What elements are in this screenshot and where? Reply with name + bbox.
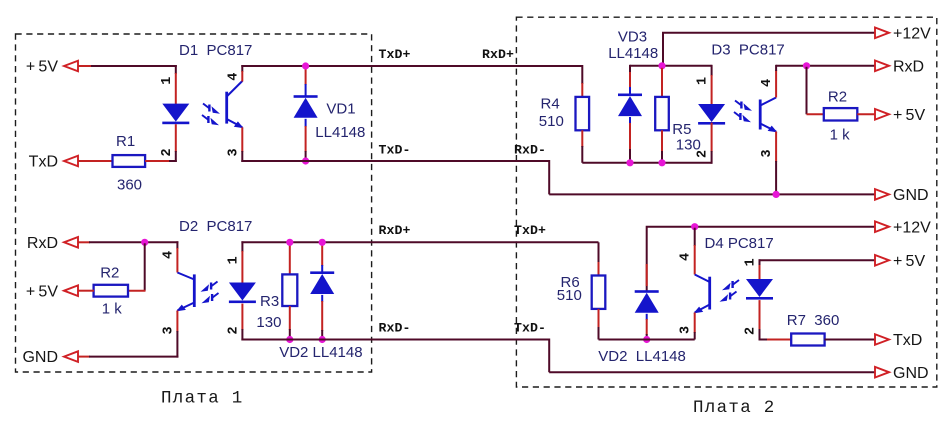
optocoupler D2 label — [179, 218, 252, 235]
wire net TxD- (board1 pin3 to corner) — [241, 161, 549, 194]
LED of D4 — [746, 279, 773, 300]
resistor R1 — [113, 155, 146, 167]
wire top bus VD3 to D3 pin1 — [630, 65, 712, 67]
emitter line with arrow of D4 — [693, 305, 709, 314]
net label TxD+ (board2 side) — [514, 223, 546, 238]
wire VD1 cathode stub — [305, 119, 307, 161]
svg-text:RxD-: RxD- — [379, 320, 411, 335]
wire net TxD+ top bus (board1 to board2 R4) — [241, 65, 582, 67]
wire R2 branch board1 — [128, 243, 145, 290]
pin number 3 of D4 — [679, 326, 694, 334]
LED of D3 — [698, 104, 725, 125]
phototransistor of D4 (base bar) — [708, 277, 711, 310]
wire D1 pin2 vertical — [175, 124, 177, 162]
label R3 — [260, 293, 279, 310]
wire D4 pin1 vertical — [759, 259, 761, 280]
svg-text:4: 4 — [226, 73, 241, 81]
wire VD3 cathode stub — [629, 117, 631, 163]
svg-text:D4 PC817: D4 PC817 — [705, 235, 774, 252]
value 510 of R4 — [539, 113, 564, 130]
svg-text:+ 5V: + 5V — [893, 107, 925, 124]
wire R3 bottom stub — [289, 306, 291, 340]
collector line of D1 — [227, 81, 243, 97]
wire RxD+ into R4 top — [549, 66, 582, 98]
node +5V label (board2 top) — [893, 107, 925, 124]
node GND label (board2 top) — [893, 187, 929, 204]
wire D1 pin3 vertical — [241, 127, 243, 162]
phototransistor of D2 (base bar) — [193, 274, 196, 307]
svg-text:RxD+: RxD+ — [379, 223, 411, 238]
connector arrow GND board2 top — [875, 189, 889, 200]
svg-text:R1: R1 — [116, 133, 135, 150]
svg-text:LL4148: LL4148 — [608, 45, 658, 62]
wire D1 pin4 vertical — [241, 65, 243, 82]
wire RxD run (pin4 to arrow) — [776, 65, 875, 67]
wire +5V to R2 board1 — [78, 290, 94, 292]
pin number 1 of D3 — [696, 77, 711, 85]
label VD2 LL4148 (board2) — [598, 348, 686, 365]
wire +12V riser and top rail — [663, 33, 876, 66]
wire GND run board2 bottom — [549, 371, 875, 373]
pin number 3 of D2 — [161, 326, 176, 334]
svg-text:1: 1 — [226, 256, 241, 264]
svg-text:+12V: +12V — [893, 25, 931, 42]
wire VD2 cathode stub (board2) — [646, 314, 648, 340]
diode VD2 (board1) — [310, 271, 334, 294]
label R1 — [116, 133, 135, 150]
node GND label (board2 bottom) — [893, 365, 929, 382]
svg-text:+ 5V: + 5V — [26, 283, 58, 300]
pin number 2 of D2 — [226, 326, 241, 334]
junction dot D3 pin3 GND — [773, 191, 780, 198]
svg-text:R5: R5 — [672, 121, 691, 138]
wire top rail board2 bottom (+12V) — [647, 227, 876, 292]
net label TxD+ (board1 side) — [379, 47, 411, 62]
svg-text:TxD+: TxD+ — [514, 223, 546, 238]
svg-text:RxD+: RxD+ — [482, 47, 514, 62]
svg-text:VD2 LL4148: VD2 LL4148 — [279, 344, 362, 361]
wire TxD+ into R6 top — [598, 242, 600, 276]
svg-text:TxD+: TxD+ — [379, 47, 411, 62]
wire R2 branch vertical — [807, 67, 825, 115]
light arrows of D1 — [202, 104, 220, 126]
wire +5V to D1 pin1 — [78, 65, 177, 67]
net label RxD- (board1 side) — [379, 320, 411, 335]
svg-text:RxD-: RxD- — [514, 142, 546, 157]
resistor R6 — [592, 276, 606, 309]
svg-text:3: 3 — [161, 326, 176, 334]
svg-text:VD3: VD3 — [618, 29, 647, 46]
net label TxD- (board1 side) — [379, 142, 411, 157]
pin number 2 of D1 — [160, 148, 175, 156]
wire R2 to +5V arrow — [857, 113, 875, 115]
emitter line with arrow of D2 — [176, 303, 194, 312]
svg-text:Плата 2: Плата 2 — [693, 398, 776, 418]
junction dot R3 top — [286, 239, 293, 246]
svg-text:TxD: TxD — [29, 154, 58, 171]
wire R5 top stub — [661, 68, 663, 98]
junction dot VD2 bottom board2 — [643, 336, 650, 343]
diode VD2 (board2) — [635, 290, 659, 313]
svg-text:R7 360: R7 360 — [787, 312, 840, 329]
node TxD label (board1) — [29, 154, 58, 171]
pin number 3 of D1 — [226, 148, 241, 156]
junction dot VD3 bottom — [626, 159, 633, 166]
svg-text:+ 5V: + 5V — [893, 253, 925, 270]
svg-text:TxD-: TxD- — [379, 142, 411, 157]
resistor R3 — [282, 274, 297, 306]
wire R7 to TxD arrow — [825, 339, 876, 341]
pin number 4 of D1 — [226, 73, 241, 81]
svg-text:2: 2 — [744, 327, 759, 335]
value LL4148 of VD3 — [608, 45, 658, 62]
connector arrow GND board2 bottom — [875, 367, 889, 378]
svg-text:1: 1 — [744, 258, 759, 266]
pin number 2 of D3 — [696, 150, 711, 158]
svg-text:2: 2 — [160, 148, 175, 156]
board 2 caption — [693, 398, 776, 418]
wire +5V run board2 bottom — [759, 259, 876, 261]
light arrows of D3 — [734, 101, 752, 123]
connector arrow +5V board2 top — [875, 109, 889, 120]
value 510 of R6 — [557, 287, 582, 304]
wire VD2 anode stub (board1) — [321, 244, 323, 272]
svg-text:VD1: VD1 — [326, 101, 355, 118]
label VD1 — [326, 101, 355, 118]
svg-text:D2 PC817: D2 PC817 — [179, 218, 252, 235]
board 1 dashed border (Plata 1) — [16, 34, 372, 372]
net label RxD- (board2 side) — [514, 142, 546, 157]
label R6 — [561, 274, 580, 291]
node RxD label (board2) — [893, 58, 924, 75]
wire VD2 anode stub (board2) — [646, 264, 648, 286]
pin number 4 of D3 — [760, 79, 775, 87]
svg-text:2: 2 — [696, 150, 711, 158]
LED of D2 — [229, 283, 256, 304]
svg-text:R2: R2 — [828, 89, 847, 106]
svg-text:1 k: 1 k — [830, 126, 851, 143]
svg-text:4: 4 — [760, 79, 775, 87]
net label RxD+ (board1 side) — [379, 223, 411, 238]
emitter line with arrow of D1 — [227, 119, 244, 128]
svg-text:3: 3 — [760, 149, 775, 157]
label R2 (board1) — [100, 265, 119, 282]
wire D3 pin4 vertical — [775, 65, 777, 98]
wire D3 pin2 vertical — [711, 123, 713, 164]
wire D4 pin2 vertical — [759, 300, 761, 340]
node TxD label (board2) — [893, 332, 922, 349]
junction dot D4 pin4 tap — [691, 223, 698, 230]
wire R5 bottom stub — [661, 130, 663, 163]
wire D2 pin1 vertical — [241, 241, 243, 283]
wire R1 to D1 pin2 — [145, 160, 177, 162]
svg-text:1: 1 — [160, 77, 175, 85]
wire D3 pin1 vertical — [711, 65, 713, 105]
label R7 360 — [787, 312, 840, 329]
wire bottom bus R6 to D4 pin3 — [599, 339, 695, 341]
connector arrow +5V board1 — [64, 61, 78, 72]
svg-text:4: 4 — [161, 251, 176, 259]
emitter line with arrow of D3 — [760, 124, 777, 133]
label R4 — [541, 96, 560, 113]
wire VD3 anode stub — [629, 65, 631, 95]
svg-text:1 k: 1 k — [102, 301, 123, 318]
label R2 (board2) — [828, 89, 847, 106]
node GND label (board1) — [22, 349, 58, 366]
connector arrow TxD board1 — [64, 156, 78, 167]
junction dot VD2 bottom board1 — [319, 336, 326, 343]
phototransistor of D1 (base bar) — [225, 92, 228, 124]
pin number 3 of D3 — [760, 149, 775, 157]
label VD3 — [618, 29, 647, 46]
pin number 1 of D1 — [160, 77, 175, 85]
svg-text:Плата 1: Плата 1 — [161, 389, 244, 409]
junction dot VD2 top board1 — [319, 239, 326, 246]
value 1 k of R2 (board2) — [830, 126, 851, 143]
label R5 — [672, 121, 691, 138]
diode VD3 — [618, 94, 642, 117]
svg-text:D3 PC817: D3 PC817 — [711, 41, 784, 58]
connector arrow +12V board2 bottom — [875, 221, 889, 232]
board 1 caption — [161, 389, 244, 409]
svg-text:3: 3 — [679, 326, 694, 334]
light arrows of D4 — [720, 280, 740, 302]
svg-text:130: 130 — [256, 314, 281, 331]
net label TxD- (board2 side) — [514, 320, 546, 335]
connector arrow RxD board2 — [875, 61, 889, 72]
wire D2 pin2 vertical — [241, 304, 243, 341]
svg-text:360: 360 — [117, 176, 142, 193]
pin number 1 of D2 — [226, 256, 241, 264]
wire D1 pin1 vertical — [175, 65, 177, 105]
svg-text:GND: GND — [893, 187, 929, 204]
svg-text:R3: R3 — [260, 293, 279, 310]
pin number 4 of D2 — [161, 251, 176, 259]
pin number 4 of D4 — [679, 253, 694, 261]
node +5V label (board2 bottom) — [893, 253, 925, 270]
wire TxD to R1 — [78, 160, 113, 162]
value 130 of R5 — [676, 137, 701, 154]
svg-text:VD2 LL4148: VD2 LL4148 — [598, 348, 686, 365]
svg-text:1: 1 — [696, 77, 711, 85]
junction dot VD1 bottom — [302, 157, 309, 164]
svg-text:R4: R4 — [541, 96, 560, 113]
wire D3 pin3 vertical — [775, 132, 777, 195]
wire bottom bus R4 to D3 pin2 — [582, 162, 711, 164]
connector arrow +12V board2 top — [875, 28, 889, 39]
wire R3 top stub — [289, 244, 291, 275]
connector arrow TxD board2 — [875, 334, 889, 345]
svg-text:RxD: RxD — [27, 235, 58, 252]
connector arrow +5V board2 bottom — [875, 255, 889, 266]
junction dot R3 bottom — [286, 336, 293, 343]
wire D2 pin4 vertical — [176, 241, 178, 272]
svg-text:LL4148: LL4148 — [315, 124, 365, 141]
connector arrow GND board1 — [64, 351, 78, 362]
light arrows of D2 — [201, 282, 219, 304]
optocoupler D3 label — [711, 41, 784, 58]
node +12V label (board2 top) — [893, 25, 931, 42]
node +12V label (board2 bottom) — [893, 219, 931, 236]
node +5V label (board1 top) — [26, 59, 58, 76]
svg-text:TxD: TxD — [893, 332, 922, 349]
collector line of D3 — [760, 98, 776, 106]
junction dot RxD R2 tap — [803, 62, 810, 69]
resistor R2 (board2) — [824, 108, 858, 120]
node RxD label (board1) — [27, 235, 58, 252]
optocoupler D1 label — [179, 42, 252, 59]
wire RxD to D2 pin4 — [78, 241, 178, 243]
connector arrow RxD board1 — [64, 237, 78, 248]
phototransistor of D3 (base bar) — [759, 100, 762, 130]
resistor R5 — [655, 97, 669, 130]
connector arrow +5V board1 bottom — [64, 285, 78, 296]
wire net RxD+ top bus (board1 to board2 R6) — [241, 241, 598, 243]
wire R6 bottom stub — [598, 309, 600, 340]
svg-text:+ 5V: + 5V — [26, 59, 58, 76]
collector line of D4 — [695, 275, 710, 283]
junction dot R5 bottom — [658, 159, 665, 166]
svg-text:GND: GND — [22, 349, 58, 366]
wire R4 bottom stub — [581, 130, 583, 163]
wire VD2 cathode stub (board1) — [321, 295, 323, 340]
wire D4 pin4 vertical — [694, 228, 696, 275]
wire D2 pin3 vertical — [176, 311, 178, 358]
wire GND board1 — [78, 356, 178, 358]
value 1 k of R2 (board1) — [102, 301, 123, 318]
svg-text:2: 2 — [226, 326, 241, 334]
optocoupler D4 label — [705, 235, 774, 252]
LED of D1 — [162, 104, 189, 125]
net label RxD+ (board2 side) — [482, 47, 514, 62]
node +5V label (board1 bottom) — [26, 283, 58, 300]
wire VD1 anode stub — [305, 68, 307, 97]
svg-text:TxD-: TxD- — [514, 320, 546, 335]
label VD2 LL4148 (board1) — [279, 344, 362, 361]
junction dot +12V tap — [658, 62, 665, 69]
wire D4 pin3 vertical — [694, 313, 696, 340]
svg-text:D1 PC817: D1 PC817 — [179, 42, 252, 59]
svg-text:RxD: RxD — [893, 58, 924, 75]
junction dot R2 tap board1 — [141, 239, 148, 246]
svg-text:510: 510 — [557, 287, 582, 304]
svg-text:R2: R2 — [100, 265, 119, 282]
value LL4148 of VD1 — [315, 124, 365, 141]
svg-text:+12V: +12V — [893, 219, 931, 236]
diode VD1 — [294, 95, 318, 118]
collector line of D2 — [177, 273, 194, 280]
svg-text:3: 3 — [226, 148, 241, 156]
pin number 1 of D4 — [744, 258, 759, 266]
svg-text:GND: GND — [893, 365, 929, 382]
resistor R7 — [791, 334, 824, 346]
resistor R4 — [576, 97, 590, 130]
svg-text:4: 4 — [679, 253, 694, 261]
value 130 of R3 — [256, 314, 281, 331]
wire D4 pin2 to R7 — [760, 339, 792, 341]
board 2 dashed border (Plata 2) — [516, 17, 936, 387]
resistor R2 (board1) — [94, 285, 128, 297]
wire GND run board2 top — [549, 193, 875, 195]
svg-text:510: 510 — [539, 113, 564, 130]
pin number 2 of D4 — [744, 327, 759, 335]
junction dot VD1 top — [302, 62, 309, 69]
value 360 of R1 — [117, 176, 142, 193]
wire net RxD- (board1 pin2 to corner) — [241, 340, 549, 373]
